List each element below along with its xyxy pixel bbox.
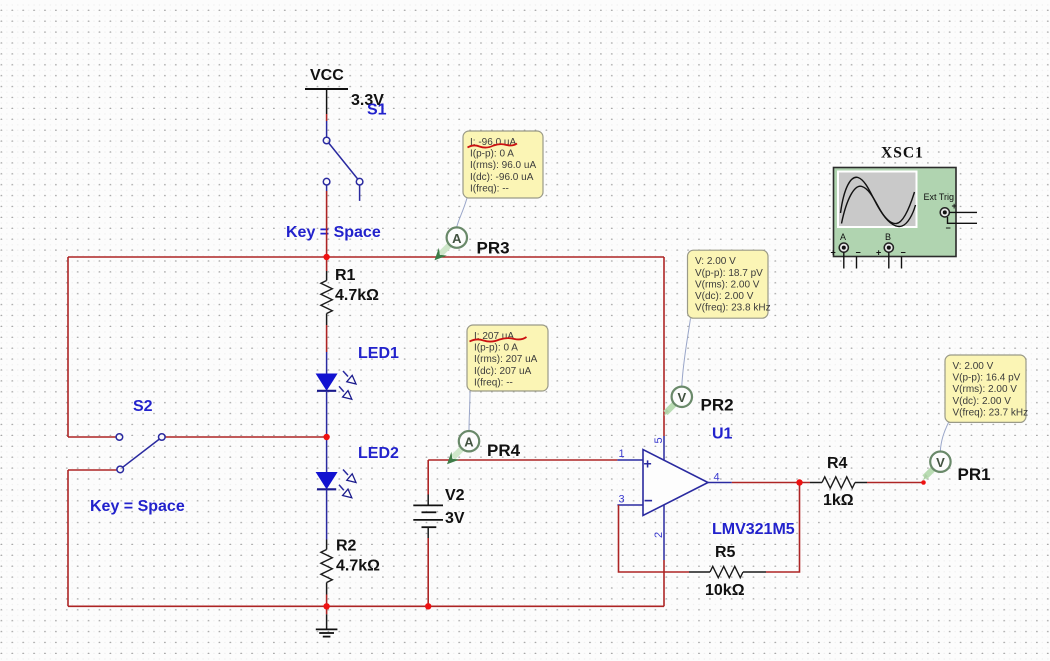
svg-text:I(dc): 207 uA: I(dc): 207 uA [474,366,532,377]
wire pin5 supply [663,257,665,436]
svg-text:A: A [452,231,462,246]
node junction output [796,479,802,485]
svg-text:+: + [876,248,881,258]
svg-text:I(p-p): 0 A: I(p-p): 0 A [470,149,514,160]
svg-text:B: B [885,232,891,242]
probe PR1 readout box [945,355,1028,422]
svg-text:PR4: PR4 [487,441,521,460]
svg-text:A: A [464,435,474,450]
wire left vertical lower [67,470,69,606]
svg-text:V: V [936,455,945,470]
svg-text:LMV321M5: LMV321M5 [712,521,795,538]
svg-text:V(p-p): 18.7 pV: V(p-p): 18.7 pV [695,268,763,279]
wire VCC to S1 [326,114,328,137]
op-amp U1 [617,426,794,561]
probe PR3 [435,198,510,260]
svg-text:+: + [644,456,652,472]
svg-text:+: + [831,248,836,258]
probe PR4 readout box [467,325,548,391]
svg-text:PR3: PR3 [477,239,510,258]
wire pin3 feedback [619,505,690,572]
resistor R4 [810,455,867,509]
svg-text:V: 2.00 V: V: 2.00 V [953,361,994,372]
svg-text:3V: 3V [445,510,465,527]
oscilloscope XSC1 [831,145,978,269]
svg-text:−: − [856,248,861,258]
battery V2 [413,460,465,606]
svg-text:4: 4 [714,472,720,484]
wire S2 common to LED node [165,436,327,438]
probe PR2 readout box [688,250,771,318]
svg-text:I(freq): --: I(freq): -- [474,377,513,388]
wire S2 bottom throw [68,469,117,471]
svg-text:S2: S2 [133,398,153,415]
resistor R5 [689,544,766,599]
svg-text:U1: U1 [712,426,733,443]
svg-text:Key = Space: Key = Space [90,498,185,515]
svg-text:−: − [644,493,653,510]
svg-text:PR1: PR1 [958,465,991,484]
svg-text:V(rms): 2.00 V: V(rms): 2.00 V [953,384,1018,395]
svg-text:R4: R4 [827,455,848,472]
probe PR2 [664,318,734,416]
svg-text:5: 5 [653,437,665,443]
svg-text:V(p-p): 16.4 pV: V(p-p): 16.4 pV [953,373,1021,384]
svg-text:+: + [952,201,957,211]
wire left vertical upper [67,257,69,437]
wire R4 to PR1 point [867,482,924,484]
svg-text:I(p-p): 0 A: I(p-p): 0 A [474,343,518,354]
svg-text:Key = Space: Key = Space [286,224,381,241]
LED D1 [317,345,400,437]
wire R1 to LED1 [326,325,328,352]
svg-text:VCC: VCC [310,67,344,84]
svg-text:R2: R2 [336,538,357,555]
svg-text:XSC1: XSC1 [881,145,924,162]
svg-text:Ext Trig: Ext Trig [924,192,955,202]
wire pin2 to ground rail [663,560,665,606]
svg-text:PR2: PR2 [701,396,734,415]
svg-text:R5: R5 [715,544,736,561]
probe PR4 [447,391,521,464]
svg-text:4.7kΩ: 4.7kΩ [336,558,380,575]
svg-text:V: V [677,390,686,405]
wire R5 to output node [766,483,800,573]
svg-text:−: − [901,248,906,258]
svg-text:1kΩ: 1kΩ [823,492,854,509]
svg-text:V(rms): 2.00 V: V(rms): 2.00 V [695,279,760,290]
switch S2 [90,398,185,515]
svg-text:I(rms): 96.0 uA: I(rms): 96.0 uA [470,160,536,171]
probe PR1 [923,422,991,484]
wire bottom rail [68,605,664,607]
svg-text:2: 2 [653,532,665,538]
svg-text:V(dc): 2.00 V: V(dc): 2.00 V [695,291,754,302]
svg-text:10kΩ: 10kΩ [705,582,745,599]
svg-text:S1: S1 [367,102,387,119]
svg-text:V(dc): 2.00 V: V(dc): 2.00 V [953,396,1012,407]
LED D2 [317,437,400,540]
node PR1 endpoint [921,480,926,485]
switch S1 [286,102,387,242]
svg-text:R1: R1 [335,267,356,284]
svg-text:V2: V2 [445,487,465,504]
svg-text:I(rms): 207 uA: I(rms): 207 uA [474,354,538,365]
svg-text:LED1: LED1 [358,345,399,362]
svg-text:1: 1 [619,448,625,460]
svg-text:A: A [840,232,846,242]
wire PR4 net [428,459,617,461]
svg-text:LED2: LED2 [358,445,399,462]
svg-text:V(freq): 23.7 kHz: V(freq): 23.7 kHz [953,407,1029,418]
resistor R1 [321,257,379,325]
power symbol VCC [305,67,384,114]
svg-text:I(dc): -96.0 uA: I(dc): -96.0 uA [470,172,534,183]
svg-text:V(freq): 23.8 kHz: V(freq): 23.8 kHz [695,303,771,314]
wire S2 top throw [68,436,116,438]
svg-text:−: − [946,223,951,233]
svg-text:V: 2.00 V: V: 2.00 V [695,256,736,267]
node junction at top rail [323,254,329,260]
svg-text:4.7kΩ: 4.7kΩ [335,287,379,304]
ground [316,606,338,636]
probe PR3 readout box [463,131,543,198]
svg-text:I(freq): --: I(freq): -- [470,183,509,194]
node junction LED row [323,434,329,440]
wire top rail [68,256,664,258]
node junction ground rail V2 [425,603,431,609]
svg-text:3: 3 [619,494,625,506]
wire output [732,482,810,484]
node junction ground rail R2 [323,603,329,609]
resistor R2 [321,538,380,607]
wire S1 to node A [326,191,328,257]
